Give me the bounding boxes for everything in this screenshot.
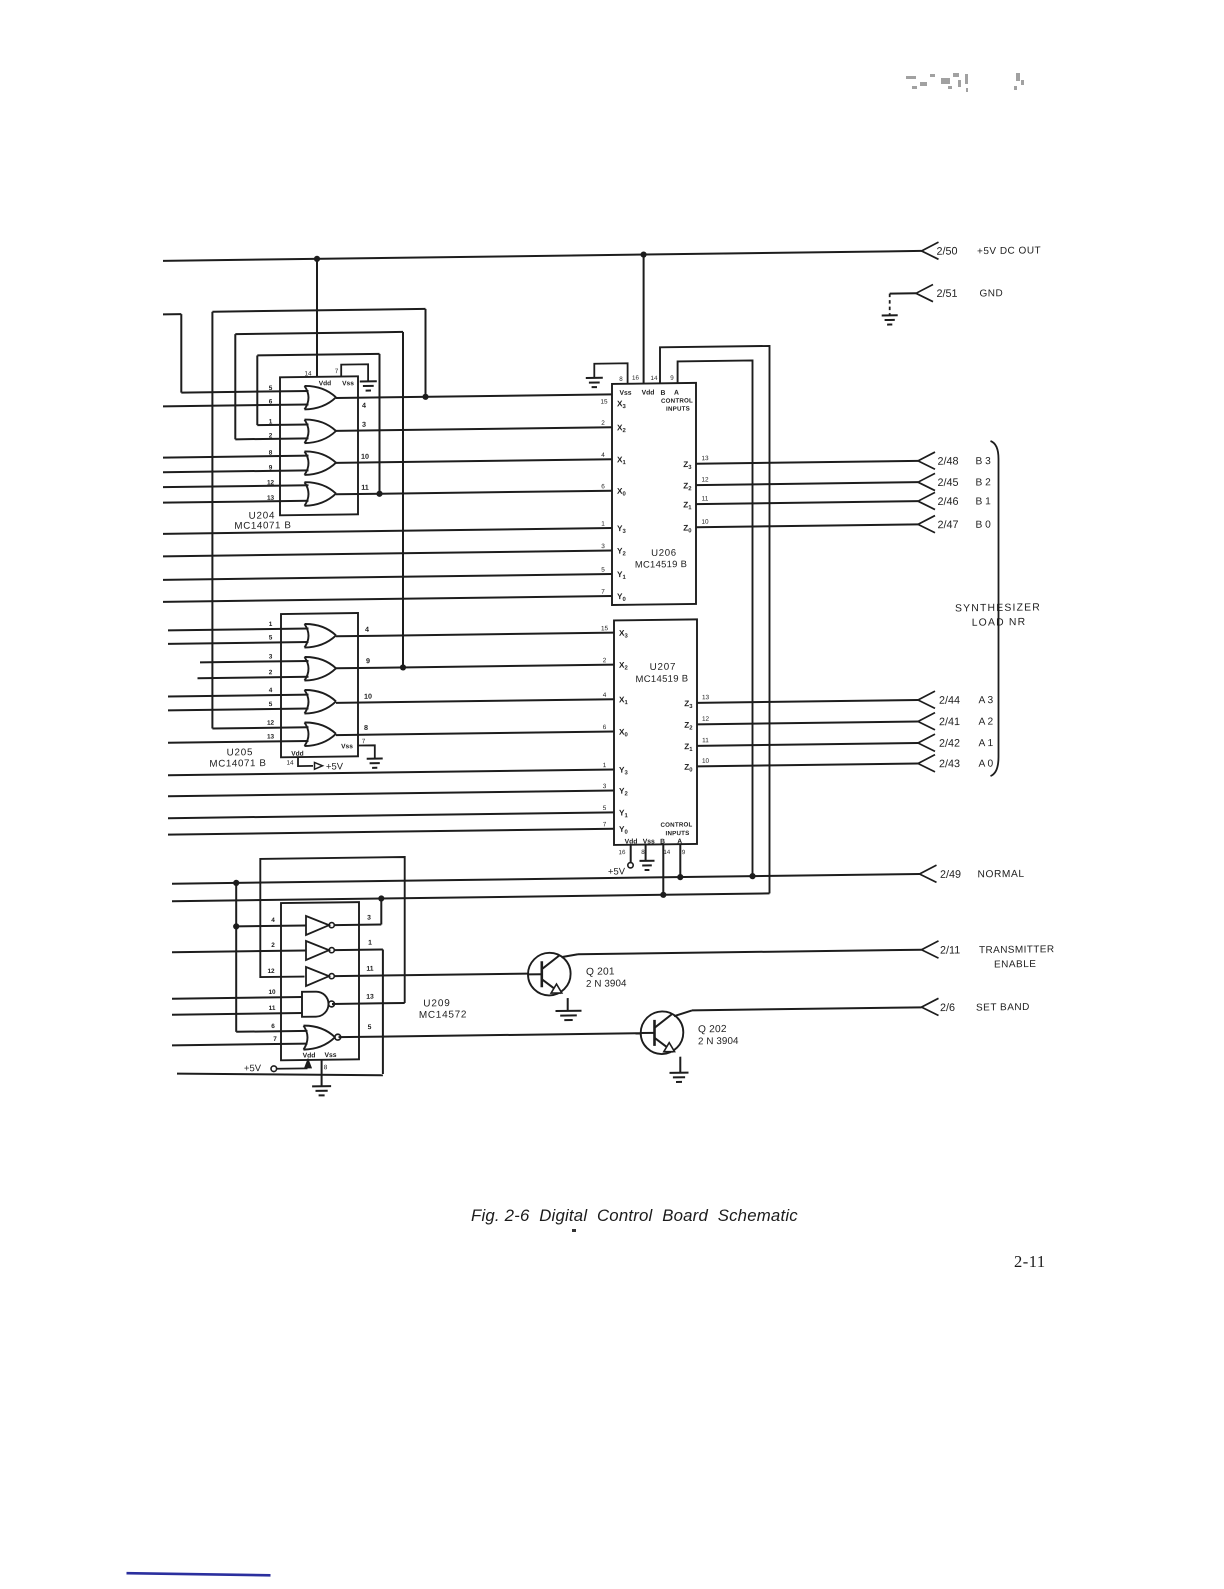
IC U205 MC14071B outline: [281, 613, 358, 757]
svg-text:Vdd: Vdd: [303, 1052, 316, 1059]
svg-text:2-11: 2-11: [1014, 1252, 1046, 1271]
svg-text:Vss: Vss: [342, 380, 354, 387]
wire U207 Z1 to connector 2/42: [697, 743, 918, 746]
svg-text:10: 10: [268, 989, 276, 996]
svg-text:12: 12: [267, 968, 275, 975]
svg-text:GND: GND: [980, 288, 1004, 299]
ground at U207 Vss: [640, 860, 655, 862]
svg-text:7: 7: [335, 368, 339, 375]
svg-text:MC14572: MC14572: [419, 1009, 467, 1021]
wire loop B: U204 gate1 output around to U205 gate4 pin12: [212, 309, 425, 312]
connector 2/11 TRANSMITTER ENABLE: [922, 941, 939, 958]
wire U209A inverter input: [236, 924, 306, 927]
svg-text:7: 7: [601, 589, 605, 596]
wire U204 gate4 output to U206 X0: [336, 491, 612, 495]
svg-text:1: 1: [269, 621, 273, 628]
wire U204 gate2 output to U206 X2: [336, 427, 612, 431]
svg-text:12: 12: [701, 476, 709, 483]
svg-text:SET BAND: SET BAND: [976, 1002, 1030, 1014]
junction dot rail to U206 Vdd: [641, 251, 647, 257]
svg-text:2/47: 2/47: [938, 519, 959, 531]
svg-text:10: 10: [364, 692, 372, 701]
svg-text:5: 5: [368, 1024, 372, 1031]
svg-text:U205: U205: [227, 747, 254, 758]
svg-text:14: 14: [304, 370, 312, 377]
wire U204 gate3 output to U206 X1: [336, 459, 612, 463]
wire U205 gate4 output to U207 X0: [336, 731, 614, 735]
svg-text:1: 1: [368, 940, 372, 947]
junction dot U209A input: [233, 923, 239, 929]
svg-text:CONTROL: CONTROL: [661, 821, 693, 828]
ground at U206 Vss: [586, 377, 603, 379]
wire U205 Vdd to +5V terminal: [298, 757, 313, 766]
IC U207 MC14519B outline: [614, 619, 697, 845]
svg-text:+5V: +5V: [244, 1062, 262, 1073]
wire U204 gate3 pin9 from left edge: [163, 470, 309, 472]
svg-text:2: 2: [269, 669, 273, 676]
wire U207 Vdd pin16 to +5V terminal: [630, 845, 632, 863]
wire U206 Z2 to connector 2/45: [696, 482, 918, 485]
svg-text:3: 3: [362, 420, 366, 429]
wire U209B output down to bottom row: [335, 948, 383, 951]
wire B bus from left edge to U206 B loop: [172, 893, 770, 901]
inverter U209C: [306, 967, 329, 986]
svg-text:13: 13: [366, 994, 374, 1001]
junction dot rail to U204 Vdd: [314, 256, 320, 262]
svg-text:13: 13: [702, 694, 710, 701]
svg-text:B: B: [661, 390, 666, 397]
bracket synthesizer load group: [991, 441, 999, 776]
svg-text:15: 15: [600, 399, 608, 406]
svg-text:11: 11: [702, 737, 709, 744]
or-gate U204D: [305, 482, 309, 506]
wire U207 Y0 from left edge: [168, 829, 614, 835]
junction dot NORMAL to U209 branch: [233, 880, 239, 886]
connector 2/50 +5V DC OUT: [922, 242, 939, 259]
svg-text:Vdd: Vdd: [642, 389, 655, 396]
connector 2/45 B2: [918, 473, 935, 490]
svg-text:+5V: +5V: [326, 760, 344, 771]
wire U207 Y3 from left edge: [168, 769, 614, 775]
header smudge top right: [906, 73, 1024, 92]
wire Q202 collector to connector 2/6: [674, 1010, 692, 1016]
wire U205 gate3 top input from left edge: [168, 695, 309, 697]
svg-text:INPUTS: INPUTS: [666, 830, 690, 837]
wire Q201 emitter to ground: [567, 998, 569, 1011]
svg-text:13: 13: [267, 733, 275, 740]
wire NORMAL bus to connector 2/49: [172, 874, 920, 884]
svg-text:2/45: 2/45: [938, 477, 959, 489]
inverter U209A: [306, 916, 329, 935]
svg-text:U209: U209: [423, 998, 451, 1009]
IC U209 MC14572 outline: [281, 902, 359, 1060]
wire U204 gate3 pin8 from left edge: [163, 456, 309, 458]
svg-text:2/51: 2/51: [937, 288, 958, 300]
svg-text:2 N 3904: 2 N 3904: [586, 978, 627, 990]
svg-text:12: 12: [702, 716, 710, 723]
svg-text:2/6: 2/6: [940, 1002, 955, 1014]
or-gate U204C: [305, 451, 309, 475]
blue scan mark bottom left: [127, 1573, 271, 1575]
junction dot B bus inverter U209A output: [378, 895, 384, 901]
wire U209 Vss to ground: [321, 1060, 323, 1086]
ground at U209 Vss: [312, 1085, 331, 1087]
wire U204 gate4 pin12 from left edge: [163, 485, 309, 487]
svg-text:11: 11: [366, 966, 373, 973]
wire U209B input from left edge: [172, 950, 306, 952]
svg-text:7: 7: [603, 821, 607, 828]
wire U204 Vdd pin14 to +5V rail: [316, 259, 318, 377]
svg-text:MC14519 B: MC14519 B: [635, 558, 687, 570]
wire U206 Vss pin8 to ground: [594, 363, 627, 384]
transistor Q202 2N3904: [641, 1011, 684, 1054]
svg-text:16: 16: [632, 375, 639, 382]
svg-text:MC14071 B: MC14071 B: [234, 520, 291, 532]
svg-text:+5V DC OUT: +5V DC OUT: [977, 245, 1041, 257]
svg-text:2/42: 2/42: [939, 738, 960, 750]
svg-text:2/43: 2/43: [939, 758, 960, 770]
svg-text:Vdd: Vdd: [319, 380, 331, 387]
svg-text:11: 11: [269, 1005, 276, 1012]
wire U206 B pin14 loop to lower bus: [660, 346, 770, 895]
wire U207 Z0 to connector 2/43: [697, 763, 918, 766]
svg-text:2/49: 2/49: [940, 869, 961, 881]
svg-text:4: 4: [269, 687, 273, 694]
svg-text:8: 8: [619, 376, 623, 383]
svg-text:2/44: 2/44: [939, 695, 960, 707]
svg-text:3: 3: [601, 543, 605, 550]
wire U209E output to Q202 base: [339, 1033, 642, 1037]
wire U205 gate1 pin5 from left edge: [168, 642, 309, 644]
svg-text:8: 8: [364, 723, 368, 732]
svg-text:2/41: 2/41: [939, 716, 960, 728]
svg-text:B 0: B 0: [976, 520, 992, 531]
svg-text:16: 16: [619, 849, 626, 856]
svg-text:6: 6: [601, 483, 605, 490]
wire U206 Z3 to connector 2/48: [696, 461, 918, 464]
svg-text:MC14071 B: MC14071 B: [209, 758, 266, 770]
or-gate U205D: [305, 722, 309, 746]
connector 2/49 NORMAL: [920, 865, 937, 882]
connector 2/42 A1: [918, 734, 935, 751]
connector 2/44 A3: [918, 691, 935, 708]
wire U206 Z0 to connector 2/47: [696, 524, 918, 527]
svg-text:3: 3: [367, 915, 371, 922]
svg-text:4: 4: [365, 625, 369, 634]
wire U209E input pin7 from left edge: [172, 1044, 308, 1046]
wire U206 Y1 from left edge: [163, 574, 612, 580]
svg-text:2: 2: [271, 942, 275, 949]
wire +5V rail from left edge to connector 2/50: [163, 251, 922, 261]
wire U207 Z2 to connector 2/41: [697, 721, 918, 724]
wire NORMAL branch to U209A input and NOR input: [235, 883, 237, 1032]
svg-text:ENABLE: ENABLE: [994, 959, 1036, 971]
connector 2/43 A0: [918, 755, 935, 772]
wire U206 Y3 from left edge: [163, 528, 612, 534]
wire U207 Y2 from left edge: [168, 790, 614, 796]
svg-text:B 3: B 3: [976, 456, 992, 467]
wire bottom row from left edge to U209B output: [177, 1071, 383, 1078]
connector 2/51 GND: [916, 284, 933, 301]
svg-text:7: 7: [362, 738, 366, 745]
ground at Q202 emitter: [670, 1072, 689, 1074]
wire U206 Z1 to connector 2/46: [696, 501, 918, 504]
wire Q201 collector to connector 2/11: [562, 954, 579, 957]
inverter U209B: [306, 941, 329, 960]
svg-text:Fig. 2-6 Digital Control Bo: Fig. 2-6 Digital Control Board Schematic: [471, 1206, 798, 1225]
wire U205 Vss pin7 to ground: [358, 745, 375, 758]
ground at Q201 emitter: [556, 1010, 582, 1012]
svg-text:13: 13: [701, 455, 709, 462]
svg-text:A 2: A 2: [979, 717, 994, 728]
junction dot loop B at U204 gate1 output: [422, 394, 428, 400]
svg-text:10: 10: [361, 452, 369, 461]
wire U209D output to loop: [332, 1002, 405, 1005]
svg-text:10: 10: [702, 758, 710, 765]
IC U204 MC14071B outline: [280, 376, 358, 515]
junction dot loop D at U204 gate4 output: [376, 491, 382, 497]
wire U205 gate3 bottom input from left edge: [168, 709, 309, 711]
wire U205 gate2 top input: [200, 661, 309, 662]
or-gate U205A: [305, 624, 309, 648]
wire U204 pin7 Vss to ground: [341, 364, 368, 381]
ground at U204 pin7: [360, 380, 377, 382]
svg-text:2: 2: [601, 420, 605, 427]
svg-text:14: 14: [286, 760, 294, 767]
wire U209D input pin11 from left edge: [172, 1013, 302, 1015]
svg-text:5: 5: [601, 567, 605, 574]
nor-gate U209E: [304, 1026, 308, 1050]
svg-text:Vss: Vss: [643, 838, 655, 845]
svg-text:3: 3: [269, 653, 273, 660]
svg-text:Vdd: Vdd: [291, 751, 303, 758]
wire 2/51 to ground: [890, 292, 916, 294]
wire loop C: U205 gate2 output around to U204 gate2 pin2: [235, 332, 403, 334]
svg-text:5: 5: [269, 701, 273, 708]
wire Q202 emitter to ground: [679, 1057, 681, 1073]
wire U205 gate1 output to U207 X3: [336, 633, 614, 637]
svg-text:1: 1: [601, 521, 605, 528]
transistor Q201 2N3904: [528, 953, 571, 996]
svg-text:7: 7: [273, 1036, 277, 1043]
wire U207 Vss pin8 to ground: [645, 845, 647, 861]
svg-text:CONTROL: CONTROL: [661, 397, 693, 404]
svg-text:15: 15: [601, 625, 609, 632]
svg-text:3: 3: [603, 783, 607, 790]
wire U204 gate4 pin13 from left edge: [163, 501, 309, 503]
svg-text:9: 9: [366, 656, 370, 665]
wire U206 Vdd pin16 to +5V rail: [643, 255, 645, 384]
svg-text:2/50: 2/50: [937, 245, 958, 257]
nand-gate U209D: [302, 991, 329, 1016]
svg-text:A 1: A 1: [979, 738, 994, 749]
svg-text:11: 11: [361, 483, 369, 492]
svg-text:2/46: 2/46: [938, 496, 959, 508]
svg-text:Q 201: Q 201: [586, 966, 615, 977]
svg-text:4: 4: [601, 452, 605, 459]
svg-text:Vss: Vss: [324, 1052, 336, 1059]
connector 2/47 B0: [918, 516, 935, 533]
svg-text:4: 4: [271, 917, 275, 924]
wire U206 Y0 from left edge: [163, 596, 612, 602]
svg-text:B 2: B 2: [976, 477, 992, 488]
svg-text:9: 9: [682, 849, 686, 856]
svg-text:10: 10: [701, 519, 709, 526]
svg-text:A 3: A 3: [979, 695, 994, 706]
wire U207 Y1 from left edge: [168, 812, 614, 818]
svg-text:1: 1: [603, 762, 607, 769]
connector 2/48 B3: [918, 452, 935, 469]
svg-text:9: 9: [670, 375, 674, 382]
svg-text:6: 6: [603, 724, 607, 731]
svg-text:INPUTS: INPUTS: [666, 405, 690, 412]
svg-text:A: A: [674, 390, 679, 397]
svg-text:11: 11: [702, 495, 709, 502]
junction dot loop C at U205 gate2 output: [400, 664, 406, 670]
svg-text:+5V: +5V: [608, 865, 626, 876]
wire U207 B pin14 to lower bus: [662, 844, 664, 895]
ground at connector 2/51: [882, 314, 898, 316]
svg-text:8: 8: [324, 1064, 328, 1071]
svg-text:12: 12: [267, 720, 275, 727]
connector 2/46 B1: [918, 492, 935, 509]
svg-text:Q 202: Q 202: [698, 1024, 727, 1035]
svg-text:1: 1: [269, 418, 273, 425]
or-gate U204B: [305, 420, 309, 444]
connector 2/41 A2: [918, 713, 935, 730]
junction dot NORMAL U206 A loop: [749, 873, 755, 879]
svg-text:2/11: 2/11: [940, 944, 960, 956]
+5V terminal at U205: [315, 762, 323, 769]
svg-text:6: 6: [271, 1023, 275, 1030]
wire jog from left edge to U204 gate1 pin5: [163, 313, 181, 315]
svg-text:Vdd: Vdd: [625, 838, 638, 845]
wire U209C output to Q201 base: [335, 974, 529, 977]
svg-text:TRANSMITTER: TRANSMITTER: [979, 944, 1055, 956]
svg-text:NORMAL: NORMAL: [978, 869, 1025, 881]
svg-text:MC14519 B: MC14519 B: [636, 673, 689, 685]
wire loop D: U204 gate4 output around to U204 gate2 pin1: [257, 354, 379, 356]
wire U206 Y2 from left edge: [163, 550, 612, 556]
svg-text:B 1: B 1: [976, 496, 992, 507]
or-gate U205B: [305, 657, 309, 681]
wire U209A output up to B bus: [335, 924, 382, 927]
svg-text:2: 2: [603, 657, 607, 664]
wire U207 Z3 to connector 2/44: [697, 700, 918, 703]
svg-text:2 N 3904: 2 N 3904: [698, 1036, 739, 1048]
wire U209D input pin10 from left edge: [172, 997, 302, 999]
connector 2/6 SET BAND: [922, 998, 939, 1015]
svg-text:2/48: 2/48: [938, 455, 959, 467]
wire U205 gate4 pin13 from left edge: [168, 741, 309, 743]
ground at U205 Vss: [367, 757, 383, 759]
wire U204 gate1 pin6 from left edge: [163, 404, 309, 406]
svg-text:14: 14: [663, 849, 670, 856]
or-gate U204A: [305, 386, 309, 410]
svg-text:14: 14: [651, 375, 658, 382]
svg-text:5: 5: [269, 385, 273, 392]
IC U206 MC14519B outline: [612, 383, 696, 605]
svg-text:5: 5: [269, 634, 273, 641]
wire loop NAND U209 output to inverter U209C input: [260, 857, 404, 1005]
svg-text:5: 5: [603, 805, 607, 812]
wire U205 gate1 pin from left edge: [168, 629, 309, 631]
svg-text:Vss: Vss: [619, 390, 631, 397]
svg-text:4: 4: [603, 692, 607, 699]
or-gate U205C: [305, 690, 309, 714]
wire U205 gate3 output to U207 X1: [336, 699, 614, 703]
svg-text:U207: U207: [650, 662, 677, 673]
svg-text:4: 4: [362, 401, 366, 410]
wire U205 gate2 output to U207 X2: [336, 665, 614, 669]
wire U207 A pin9 to NORMAL bus: [679, 844, 681, 877]
wire U205 gate2 pin2 input: [198, 677, 309, 678]
wire U204 gate1 output to U206 X3: [336, 394, 612, 398]
svg-text:A 0: A 0: [979, 759, 994, 770]
svg-text:Vss: Vss: [341, 743, 353, 750]
junction dot U207 B: [660, 892, 666, 898]
wire U206 A pin9 loop to NORMAL bus: [678, 360, 753, 877]
svg-text:2: 2: [269, 432, 273, 439]
junction dot U207 A: [677, 874, 683, 880]
